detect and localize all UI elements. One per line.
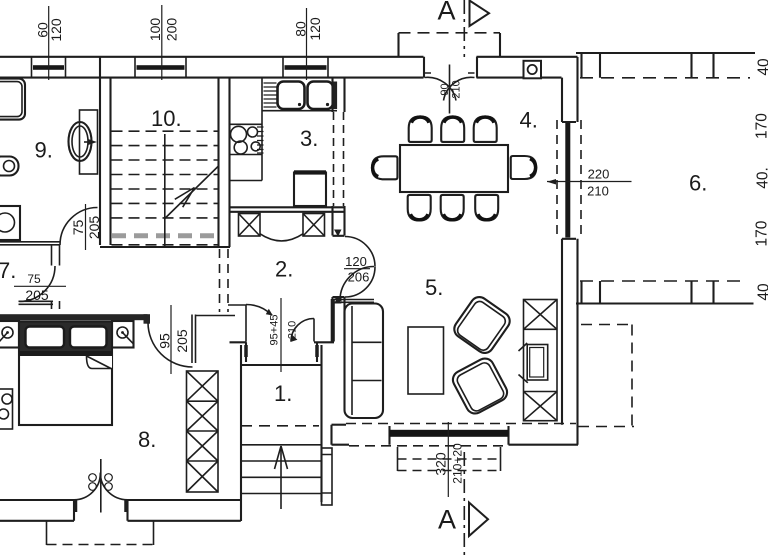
svg-text:6.: 6. — [689, 171, 707, 196]
svg-text:206: 206 — [348, 270, 370, 285]
svg-text:120: 120 — [48, 18, 64, 42]
svg-text:170: 170 — [754, 113, 768, 139]
svg-text:75: 75 — [27, 272, 41, 286]
svg-text:A: A — [438, 0, 456, 26]
svg-text:95+45: 95+45 — [269, 315, 281, 346]
svg-text:4.: 4. — [520, 108, 538, 133]
svg-text:210: 210 — [287, 321, 299, 339]
svg-text:40.: 40. — [755, 167, 768, 189]
svg-text:90: 90 — [439, 83, 451, 95]
svg-text:120: 120 — [307, 17, 323, 41]
svg-text:100: 100 — [147, 18, 163, 42]
svg-text:8.: 8. — [138, 427, 156, 452]
svg-text:220: 220 — [588, 167, 610, 182]
svg-text:320: 320 — [433, 452, 449, 476]
svg-text:95: 95 — [157, 333, 173, 349]
svg-text:210: 210 — [587, 184, 609, 199]
svg-text:200: 200 — [164, 18, 180, 42]
svg-text:75: 75 — [70, 220, 86, 236]
svg-text:3.: 3. — [300, 126, 318, 151]
svg-text:1.: 1. — [274, 381, 292, 406]
svg-text:120: 120 — [345, 254, 367, 269]
svg-text:205: 205 — [174, 329, 190, 353]
svg-text:40: 40 — [756, 58, 768, 76]
svg-text:170: 170 — [754, 220, 768, 246]
svg-text:40: 40 — [756, 283, 768, 301]
svg-text:2.: 2. — [275, 257, 293, 282]
svg-text:205: 205 — [86, 216, 102, 240]
svg-text:210: 210 — [451, 80, 463, 98]
svg-text:210+20: 210+20 — [451, 443, 465, 484]
svg-text:A: A — [438, 505, 456, 535]
svg-text:7.: 7. — [0, 258, 16, 283]
svg-text:5.: 5. — [425, 275, 443, 300]
svg-text:205: 205 — [25, 287, 49, 303]
svg-text:10.: 10. — [151, 106, 182, 131]
svg-text:9.: 9. — [35, 138, 53, 163]
